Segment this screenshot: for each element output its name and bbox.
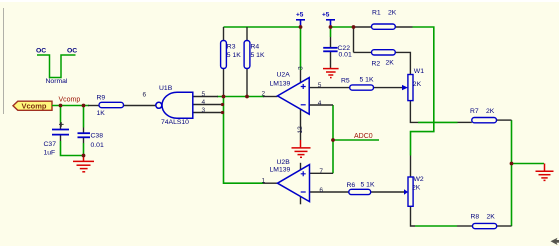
svg-text:2K: 2K: [412, 185, 421, 192]
svg-text:+5: +5: [296, 11, 304, 18]
svg-text:LM139: LM139: [270, 81, 291, 88]
svg-text:R7: R7: [470, 108, 479, 115]
svg-text:0.01: 0.01: [91, 142, 104, 149]
svg-text:3: 3: [202, 107, 206, 114]
svg-text:R2: R2: [372, 61, 381, 68]
svg-text:+5: +5: [322, 11, 330, 18]
svg-text:R8: R8: [471, 213, 480, 220]
svg-text:5: 5: [318, 82, 322, 89]
svg-text:1uF: 1uF: [44, 150, 56, 157]
svg-text:U1B: U1B: [159, 85, 173, 92]
svg-text:6: 6: [319, 187, 323, 194]
svg-text:2K: 2K: [486, 108, 495, 115]
svg-text:6: 6: [143, 91, 147, 98]
svg-text:R5: R5: [341, 78, 350, 85]
svg-text:R6: R6: [347, 182, 356, 189]
svg-text:C37: C37: [44, 141, 57, 148]
svg-text:0.01: 0.01: [339, 52, 352, 59]
svg-text:1: 1: [262, 177, 266, 184]
svg-text:3: 3: [297, 66, 304, 70]
svg-text:LM139: LM139: [270, 166, 291, 173]
svg-text:R9: R9: [97, 95, 106, 102]
svg-text:ADC0: ADC0: [354, 133, 373, 140]
svg-text:OC: OC: [36, 48, 46, 55]
svg-text:5 1K: 5 1K: [227, 52, 241, 59]
svg-text:1K: 1K: [97, 110, 106, 117]
svg-text:C38: C38: [91, 133, 104, 140]
svg-text:2K: 2K: [487, 213, 496, 220]
svg-text:U2A: U2A: [277, 72, 291, 79]
svg-text:5 1K: 5 1K: [361, 182, 375, 189]
svg-text:Vcomp: Vcomp: [59, 97, 81, 104]
svg-text:Vcomp: Vcomp: [22, 102, 47, 111]
svg-text:Normal: Normal: [46, 78, 68, 85]
svg-text:5 1K: 5 1K: [251, 52, 265, 59]
svg-text:2K: 2K: [413, 81, 422, 88]
svg-text:R4: R4: [251, 43, 260, 50]
svg-text:4: 4: [202, 99, 206, 106]
svg-text:2K: 2K: [386, 60, 395, 67]
svg-text:7: 7: [319, 168, 323, 175]
svg-text:2: 2: [262, 90, 266, 97]
svg-text:U2B: U2B: [277, 159, 291, 166]
svg-text:5: 5: [202, 91, 206, 98]
svg-text:W1: W1: [414, 68, 424, 75]
svg-text:4: 4: [318, 100, 322, 107]
svg-text:OC: OC: [67, 48, 77, 55]
svg-text:2K: 2K: [388, 10, 397, 17]
svg-text:74ALS10: 74ALS10: [161, 119, 189, 126]
svg-text:W2: W2: [414, 176, 424, 183]
svg-text:5 1K: 5 1K: [360, 77, 374, 84]
svg-text:R3: R3: [227, 43, 236, 50]
svg-text:12: 12: [297, 126, 304, 134]
svg-text:R1: R1: [372, 10, 381, 17]
